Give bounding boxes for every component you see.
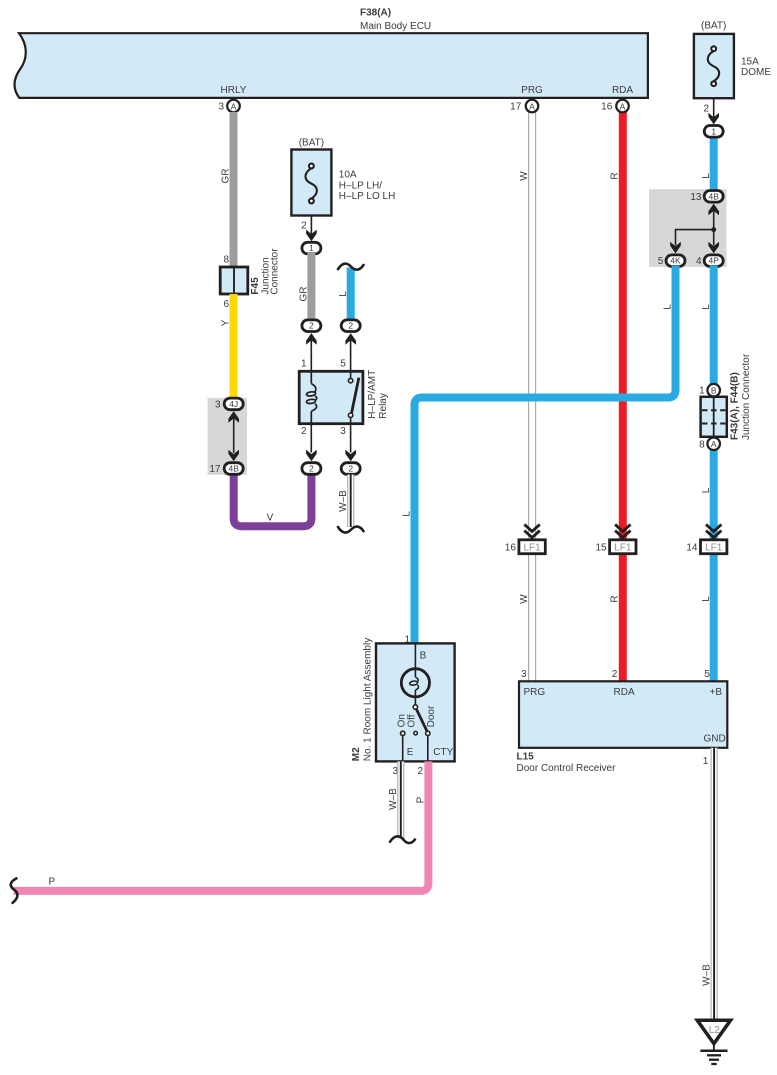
- fuse element symbol: [708, 46, 719, 86]
- junction dot: [711, 227, 716, 232]
- ECU F38(A) Main Body ECU box: [15, 33, 648, 98]
- L15 Door Control Receiver box: [519, 681, 727, 748]
- svg-text:13: 13: [690, 192, 702, 203]
- shaded connector box: [649, 189, 727, 267]
- oval terminal 4J: [224, 398, 243, 410]
- break squiggle (relay W-B): [338, 527, 364, 533]
- oval terminal 1 (dome): [704, 126, 723, 138]
- connector LF1 (14) box: [701, 540, 727, 554]
- svg-text:L2: L2: [709, 1025, 721, 1036]
- svg-text:+B: +B: [710, 687, 723, 698]
- connector LF1 (15) box: [610, 540, 636, 554]
- connector arrow down: [708, 113, 719, 125]
- svg-text:RDA: RDA: [614, 687, 635, 698]
- fuse 10A H-LP box: [291, 150, 331, 216]
- svg-text:3: 3: [521, 669, 527, 680]
- svg-text:2: 2: [703, 103, 709, 114]
- svg-text:B: B: [711, 386, 717, 396]
- svg-text:3: 3: [218, 102, 224, 113]
- svg-text:F43(A), F44(B): F43(A), F44(B): [729, 372, 740, 440]
- wire W-B stub below relay pin3: [347, 475, 354, 528]
- svg-text:1: 1: [711, 126, 716, 136]
- wire L dome fuse to 4B: [710, 135, 718, 196]
- svg-text:E: E: [407, 747, 414, 758]
- svg-text:8: 8: [223, 255, 229, 266]
- svg-text:P: P: [49, 877, 56, 888]
- svg-text:5: 5: [340, 358, 346, 369]
- break squiggle (M2 W-B): [390, 836, 415, 843]
- arrow up into 4J: [228, 411, 239, 423]
- oval terminal 4P: [704, 255, 723, 267]
- svg-text:17: 17: [510, 102, 522, 113]
- svg-text:PRG: PRG: [524, 687, 546, 698]
- svg-text:2: 2: [348, 321, 353, 331]
- wire R (red) from ECU RDA to L15 RDA: [619, 112, 627, 681]
- svg-text:R: R: [610, 595, 621, 602]
- svg-text:W–B: W–B: [338, 490, 349, 512]
- svg-text:2: 2: [301, 426, 307, 437]
- svg-text:4B: 4B: [228, 464, 239, 474]
- svg-text:M2: M2: [351, 747, 362, 761]
- fuse element symbol (10A): [305, 164, 316, 204]
- junction connector F45 box: [220, 267, 248, 294]
- svg-text:Main Body ECU: Main Body ECU: [360, 21, 431, 32]
- ECU pin circle A (PRG): [526, 100, 539, 113]
- break squiggle (L stub): [338, 264, 364, 270]
- wire W (white) from ECU PRG to L15 PRG: [528, 112, 536, 681]
- internal branch wiring: [676, 209, 714, 246]
- connector LF1 (15) chevrons: [615, 524, 630, 537]
- svg-text:1: 1: [301, 358, 307, 369]
- svg-text:Junction Connector: Junction Connector: [741, 353, 752, 440]
- fuse pin 2 lead: [310, 216, 312, 235]
- fuse 15A DOME box: [694, 34, 734, 98]
- svg-text:No. 1 Room Light Assembly: No. 1 Room Light Assembly: [362, 638, 373, 761]
- ground hatch lines: [700, 1044, 727, 1064]
- svg-text:GR: GR: [221, 169, 232, 184]
- connector LF1 (16) box: [519, 540, 545, 554]
- svg-text:2: 2: [309, 321, 314, 331]
- svg-text:3: 3: [340, 426, 346, 437]
- svg-text:GR: GR: [299, 287, 310, 302]
- svg-text:4K: 4K: [670, 256, 681, 266]
- arrow up into oval (pin1): [306, 333, 317, 345]
- arrow down into oval (pin3): [345, 450, 356, 462]
- svg-text:PRG: PRG: [521, 85, 543, 96]
- wire L stub above relay pin 5: [347, 268, 355, 321]
- svg-text:LF1: LF1: [705, 542, 723, 553]
- svg-text:CTY: CTY: [433, 747, 453, 758]
- svg-text:LF1: LF1: [614, 542, 632, 553]
- svg-text:H–LP/AMT: H–LP/AMT: [367, 370, 378, 419]
- svg-text:2: 2: [348, 464, 353, 474]
- svg-text:HRLY: HRLY: [221, 85, 247, 96]
- junction connector F43(A),F44(B) box: [701, 397, 727, 437]
- svg-text:(BAT): (BAT): [701, 20, 726, 31]
- svg-text:Connector: Connector: [269, 248, 280, 295]
- arrow down into 4K: [670, 242, 681, 254]
- svg-text:16: 16: [505, 543, 517, 554]
- purple wire V from 4B to relay pin2 oval: [234, 466, 312, 526]
- svg-text:L: L: [402, 511, 413, 517]
- svg-text:W–B: W–B: [701, 964, 712, 986]
- svg-text:5: 5: [704, 669, 710, 680]
- oval terminal 4B: [704, 191, 723, 203]
- svg-text:Door Control Receiver: Door Control Receiver: [517, 763, 617, 774]
- lead into relay pin5: [350, 339, 352, 371]
- svg-text:Y: Y: [221, 319, 232, 326]
- oval terminal 4K: [666, 255, 685, 267]
- svg-text:5: 5: [658, 256, 664, 267]
- svg-text:H–LP LH/: H–LP LH/: [339, 180, 382, 191]
- svg-text:2: 2: [309, 464, 314, 474]
- svg-text:H–LP LO LH: H–LP LO LH: [339, 191, 396, 202]
- svg-text:2: 2: [417, 766, 423, 777]
- arrow down into 4P: [708, 242, 719, 254]
- svg-text:L15: L15: [517, 752, 535, 763]
- svg-text:1: 1: [309, 243, 314, 253]
- wire Y from F45 to 4J: [230, 294, 238, 400]
- wire GR from ECU HRLY to F45: [230, 112, 238, 267]
- svg-text:A: A: [711, 439, 717, 449]
- relay switch: [348, 371, 359, 423]
- connector LF1 (16) chevrons: [524, 524, 539, 537]
- svg-text:10A: 10A: [339, 170, 357, 181]
- oval terminal 2 (relay pin3 bottom): [341, 463, 360, 475]
- svg-text:R: R: [610, 172, 621, 179]
- svg-text:2: 2: [612, 669, 618, 680]
- ground symbol L2 triangle: [697, 1020, 730, 1043]
- svg-text:4P: 4P: [708, 256, 719, 266]
- svg-text:16: 16: [601, 102, 613, 113]
- dome pin 2 lead: [713, 98, 715, 118]
- connector LF1 (14) chevrons: [706, 524, 721, 537]
- svg-text:DOME: DOME: [741, 67, 771, 78]
- oval terminal 2 (relay pin2 bottom): [302, 463, 321, 475]
- svg-text:P: P: [416, 796, 427, 803]
- svg-text:1: 1: [699, 386, 705, 397]
- svg-text:RDA: RDA: [612, 85, 633, 96]
- lead from relay pin3: [350, 424, 352, 453]
- break squiggle (pink wire end): [11, 878, 18, 903]
- svg-text:3: 3: [215, 399, 221, 410]
- arrow up into 4B: [708, 204, 719, 216]
- svg-text:W: W: [519, 171, 530, 181]
- svg-text:L: L: [701, 304, 712, 310]
- svg-text:V: V: [267, 512, 274, 523]
- svg-text:A: A: [620, 101, 626, 111]
- svg-text:4B: 4B: [708, 191, 719, 201]
- wire W-B from L15 GND to ground: [711, 748, 718, 1020]
- lead into relay pin1: [310, 339, 312, 371]
- svg-text:17: 17: [209, 464, 221, 475]
- lead from relay pin2: [310, 424, 312, 453]
- oval terminal 2 (relay pin1 top): [302, 320, 321, 332]
- svg-text:Relay: Relay: [378, 393, 389, 419]
- oval terminal 4B (17): [224, 463, 243, 475]
- lamp symbol: [401, 643, 429, 704]
- svg-text:L: L: [701, 173, 712, 179]
- arrow up into oval (pin5): [345, 333, 356, 345]
- svg-text:B: B: [420, 651, 427, 662]
- arrow down into oval (pin2): [306, 450, 317, 462]
- svg-text:14: 14: [686, 543, 698, 554]
- ECU pin circle A (HRLY): [227, 100, 240, 113]
- svg-text:L: L: [701, 487, 712, 493]
- relay H-LP/AMT box: [299, 371, 363, 423]
- svg-text:A: A: [231, 101, 237, 111]
- connector circle B: [707, 384, 720, 397]
- connector circle A: [707, 438, 720, 451]
- svg-text:W–B: W–B: [388, 788, 399, 810]
- svg-text:F38(A): F38(A): [360, 8, 391, 19]
- wire L from 4P down to junction connector B: [710, 266, 718, 385]
- connector arrow down (fuse): [306, 230, 317, 242]
- svg-text:L: L: [663, 304, 674, 310]
- wire P pink from M2 CTY: [14, 761, 429, 891]
- oval terminal 1 (fuse): [302, 242, 321, 254]
- svg-text:15: 15: [595, 543, 607, 554]
- svg-text:(BAT): (BAT): [299, 138, 324, 149]
- svg-text:Door: Door: [426, 705, 437, 727]
- M2 room light box: [376, 643, 455, 761]
- wire L from junction connector A down to L15 +B: [710, 450, 718, 682]
- shaded connector box 4J/4B: [208, 398, 248, 475]
- svg-text:A: A: [529, 101, 535, 111]
- svg-text:4: 4: [696, 256, 702, 267]
- wire W-B below M2: [397, 761, 404, 838]
- internal link 4J-4B: [233, 413, 235, 453]
- wire GR from fuse to relay: [307, 253, 315, 320]
- svg-text:6: 6: [223, 299, 229, 310]
- svg-text:L: L: [338, 291, 349, 297]
- room light switch: [401, 705, 430, 762]
- arrow down into 4B: [228, 450, 239, 462]
- svg-text:4J: 4J: [229, 399, 238, 409]
- svg-text:W: W: [519, 594, 530, 604]
- relay coil: [306, 371, 317, 423]
- wire L from 4K down, left and down to room light: [415, 266, 676, 644]
- svg-text:L: L: [701, 596, 712, 602]
- oval terminal 2 (relay pin5 top): [341, 320, 360, 332]
- svg-text:GND: GND: [704, 734, 726, 745]
- svg-text:8: 8: [699, 439, 705, 450]
- svg-text:1: 1: [703, 756, 709, 767]
- ECU pin circle A (RDA): [616, 100, 629, 113]
- svg-text:Off: Off: [406, 714, 417, 727]
- svg-text:LF1: LF1: [523, 542, 541, 553]
